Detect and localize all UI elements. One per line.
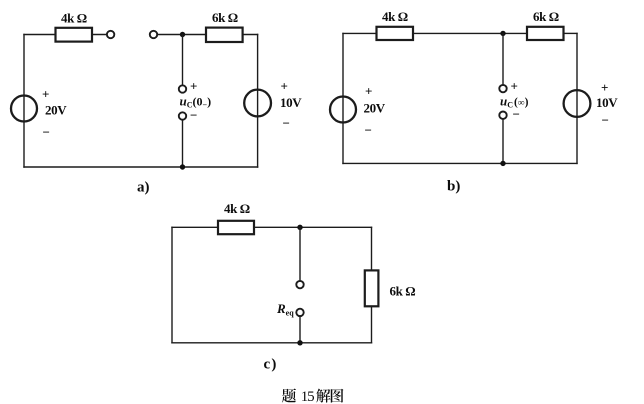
svg-text:15: 15 (301, 389, 314, 404)
node: bottom junction (circuit a) (180, 164, 185, 169)
wire: 4k resistor to junction and corner (circuit c) (254, 226, 372, 228)
wire: resistor to open terminal (circuit a) (92, 34, 107, 36)
caption: hanzi 图 (331, 389, 344, 403)
svg-text:−: − (365, 123, 372, 138)
wire: 4k resistor to junction (circuit b) (413, 32, 527, 34)
caption: hanzi 解 (316, 389, 330, 403)
svg-text:Req: Req (276, 301, 294, 318)
svg-text:−: − (190, 108, 197, 123)
svg-text:+: + (511, 79, 518, 94)
svg-text:20V: 20V (364, 101, 386, 116)
resistor 4kΩ (circuit c) (218, 221, 254, 234)
caption: hanzi 题 (282, 389, 296, 403)
wire: capacitor branch upper (circuit b) (502, 33, 504, 85)
svg-text:6k Ω: 6k Ω (212, 10, 238, 25)
wire: capacitor branch upper (circuit a) (182, 35, 184, 86)
svg-text:+: + (365, 84, 372, 99)
svg-text:b): b) (447, 179, 460, 195)
wire: circuit b top-right segment (564, 32, 578, 34)
resistor 6kΩ (circuit b) (527, 27, 564, 40)
terminal: uC(inf) minus terminal (circuit b) (499, 112, 506, 119)
svg-text:−: − (602, 113, 609, 128)
svg-text:c): c) (264, 357, 278, 373)
svg-text:+: + (42, 87, 49, 102)
svg-text:20V: 20V (45, 103, 67, 118)
wire: circuit a right branch (257, 35, 259, 168)
wire: circuit b bottom rail (343, 162, 577, 164)
node: bottom junction (circuit c) (297, 340, 302, 345)
terminal: uC(0-) minus terminal (circuit a) (179, 112, 186, 119)
node: top junction (circuit b) (500, 31, 505, 36)
svg-text:−: − (513, 107, 520, 122)
wire: circuit c bottom rail (172, 342, 372, 344)
terminal: uC(inf) plus terminal (circuit b) (499, 85, 506, 92)
terminal: open switch contact left (circuit a) (107, 31, 114, 38)
wire: circuit c left branch (171, 227, 173, 342)
node: top junction (circuit a) (180, 32, 185, 37)
terminal: open switch contact right (circuit a) (150, 31, 157, 38)
source 20V (circuit b) (330, 97, 356, 123)
svg-text:10V: 10V (280, 95, 302, 110)
resistor 6kΩ vertical (circuit c) (365, 270, 379, 306)
svg-text:+: + (601, 80, 608, 95)
svg-text:a): a) (137, 180, 150, 196)
wire: circuit b top-left segment (343, 32, 377, 34)
svg-text:6k Ω: 6k Ω (533, 9, 559, 24)
wire: capacitor branch lower (circuit b) (502, 119, 504, 163)
svg-text:−: − (283, 116, 290, 131)
wire: Req branch lower (circuit c) (299, 316, 301, 343)
node: top junction (circuit c) (297, 225, 302, 230)
terminal: Req lower terminal (circuit c) (296, 309, 303, 316)
wire: circuit a top-right segment (243, 34, 258, 36)
source 20V (circuit a) (11, 96, 37, 122)
source 10V (circuit a) (244, 90, 271, 117)
svg-text:+: + (190, 79, 197, 94)
svg-text:4k Ω: 4k Ω (61, 11, 87, 26)
resistor 4kΩ (circuit a) (56, 28, 93, 42)
node: bottom junction (circuit b) (500, 161, 505, 166)
svg-text:10V: 10V (596, 95, 618, 110)
wire: Req branch upper (circuit c) (299, 227, 301, 281)
wire: circuit c top-left segment (172, 226, 218, 228)
source 10V (circuit b) (564, 90, 591, 117)
svg-text:+: + (281, 79, 288, 94)
wire: capacitor branch lower (circuit a) (182, 120, 184, 167)
svg-text:6k Ω: 6k Ω (390, 284, 416, 299)
wire: circuit b left branch (342, 33, 344, 163)
terminal: uC(0-) plus terminal (circuit a) (179, 85, 186, 92)
wire: circuit a left branch (23, 35, 25, 168)
wire: circuit c right branch lower (371, 306, 373, 343)
wire: circuit a top-left segment (24, 34, 56, 36)
wire: terminal to 6k resistor (circuit a) (157, 34, 206, 36)
svg-text:4k Ω: 4k Ω (382, 9, 408, 24)
resistor 6kΩ (circuit a) (206, 28, 243, 42)
wire: circuit a bottom rail (24, 166, 258, 168)
wire: circuit c right branch upper (371, 227, 373, 270)
terminal: Req upper terminal (circuit c) (296, 281, 303, 288)
wire: circuit b right branch (576, 33, 578, 163)
svg-text:4k Ω: 4k Ω (224, 201, 250, 216)
svg-text:−: − (43, 125, 50, 140)
resistor 4kΩ (circuit b) (377, 27, 414, 40)
